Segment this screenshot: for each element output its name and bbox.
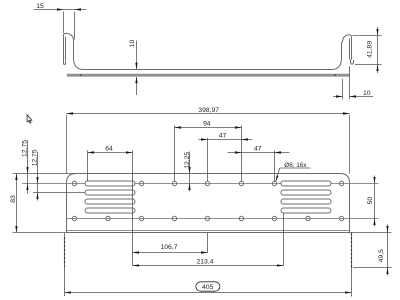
svg-text:50: 50 — [367, 197, 374, 205]
svg-text:47: 47 — [254, 145, 262, 152]
svg-text:12,75: 12,75 — [32, 149, 39, 166]
svg-text:41,89: 41,89 — [367, 41, 374, 58]
svg-text:15: 15 — [36, 3, 44, 10]
svg-text:Ø6; 16x: Ø6; 16x — [284, 162, 307, 169]
svg-text:12,25: 12,25 — [184, 152, 191, 169]
svg-text:106,7: 106,7 — [160, 244, 177, 251]
svg-text:10: 10 — [363, 90, 371, 97]
svg-text:405: 405 — [202, 284, 214, 291]
svg-text:10: 10 — [129, 40, 136, 48]
svg-text:213,4: 213,4 — [196, 258, 213, 265]
svg-text:49,5: 49,5 — [378, 249, 385, 262]
svg-text:83: 83 — [10, 195, 17, 203]
svg-text:47: 47 — [219, 133, 227, 140]
svg-text:12,75: 12,75 — [22, 140, 29, 157]
svg-text:398,97: 398,97 — [198, 107, 219, 114]
svg-text:64: 64 — [105, 146, 113, 153]
svg-text:94: 94 — [203, 120, 211, 127]
